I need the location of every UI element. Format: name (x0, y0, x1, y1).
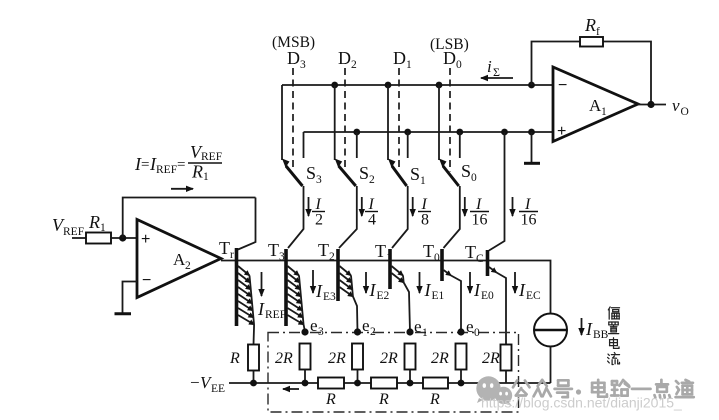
node e2 (354, 316, 376, 338)
node: 2R(e2) on rail (354, 380, 361, 387)
switch S3 arm (282, 159, 303, 187)
svg-text:2R: 2R (482, 350, 500, 367)
wire: ground stub at A1 noninverting input (531, 132, 533, 162)
node: ground stub on ground bus (528, 129, 535, 136)
transistor T2 (4 emitters) (338, 249, 353, 301)
svg-text:E1: E1 (432, 290, 445, 302)
svg-text:I: I (421, 196, 428, 213)
svg-text:2: 2 (185, 260, 191, 272)
svg-text:1: 1 (406, 59, 412, 71)
wire: S2 contact stub from ground bus (356, 132, 358, 158)
svg-text:2R: 2R (380, 350, 398, 367)
svg-text:4: 4 (368, 212, 376, 229)
current arrow I/16 (TC) (512, 197, 514, 216)
svg-text:I: I (315, 196, 322, 213)
label S1 (410, 164, 426, 187)
svg-text:16: 16 (472, 212, 488, 229)
svg-text:2: 2 (315, 212, 323, 229)
svg-text:1: 1 (420, 175, 426, 187)
wire: feedback from Tr collector to A2 input (123, 198, 256, 239)
svg-text:D: D (338, 48, 351, 68)
transistor Tr (multi-emitter) (237, 248, 255, 326)
node: feedback junction at A2 input (119, 234, 126, 241)
svg-text:R: R (191, 162, 203, 182)
svg-text:0: 0 (456, 59, 462, 71)
svg-text:−: − (190, 373, 200, 392)
node: output (647, 101, 654, 108)
label vo (672, 96, 689, 118)
wire: S3 contact from summing bus (281, 85, 283, 160)
current arrow i-sigma (481, 77, 513, 79)
svg-text:=: = (141, 157, 149, 173)
svg-text:I: I (585, 319, 593, 339)
svg-text:16: 16 (521, 212, 537, 229)
wire: R to -VEE rail (253, 371, 255, 384)
resistor Rf (580, 37, 603, 47)
wire: R1 to A2 noninverting input (111, 237, 137, 239)
svg-text:EC: EC (526, 290, 541, 302)
node: 2R(e3) on rail (302, 380, 309, 387)
label I/8 (418, 196, 431, 229)
svg-text:I: I (369, 280, 377, 300)
svg-text:R: R (378, 391, 389, 408)
label IE3 (315, 281, 336, 303)
wire: D1 control line (dashed) (398, 68, 400, 168)
svg-text:3: 3 (279, 251, 285, 263)
network boundary (dash-dot) (268, 333, 519, 413)
svg-text:I: I (524, 196, 531, 213)
svg-text:3: 3 (316, 174, 322, 186)
node: S1 contact on summing bus (385, 82, 392, 89)
current arrow IBB (581, 318, 583, 335)
svg-text:2: 2 (369, 174, 375, 186)
svg-text:8: 8 (421, 212, 429, 229)
wire: S0 pole to T0 collector (444, 186, 460, 248)
resistor 2R termination (482, 345, 512, 371)
svg-text:v: v (672, 96, 680, 115)
wire: D2 control line (dashed) (344, 68, 346, 168)
resistor 2R at e3 (275, 344, 311, 370)
label D2 (338, 48, 357, 71)
svg-text:D: D (443, 48, 456, 68)
label IEC (518, 280, 541, 302)
label S2 (359, 163, 375, 186)
svg-text:REF: REF (201, 151, 222, 163)
svg-text:S: S (359, 163, 369, 183)
resistor R1 (86, 233, 111, 244)
resistor 2R at e2 (328, 344, 363, 370)
wire: S0 contact from summing bus (438, 85, 440, 160)
svg-text:=: = (177, 157, 185, 173)
svg-text:T: T (375, 241, 386, 261)
svg-text:e: e (414, 317, 422, 336)
svg-text:I: I (475, 196, 482, 213)
ground at A2 inverting input (115, 312, 132, 315)
svg-text:e: e (466, 317, 474, 336)
label Rf (584, 15, 600, 38)
transistor T1 (2 emitters) (390, 249, 404, 289)
transistor TC (488, 250, 507, 345)
label T0 (423, 241, 440, 264)
transistor T0 (442, 249, 461, 332)
current arrow I/2 (308, 197, 310, 216)
label 偏置电流 (bias current, vector CJK) (608, 307, 620, 365)
node: S0 contact on summing bus (436, 82, 443, 89)
svg-text:T: T (465, 242, 476, 262)
svg-text:−: − (142, 272, 151, 289)
watermark icon (476, 376, 512, 406)
label I/16 (TC) (519, 196, 538, 229)
node: TC collector on ground bus (501, 129, 508, 136)
svg-text:e: e (310, 316, 318, 335)
current arrow IREF (261, 272, 263, 296)
wire: 2R termination to rail (505, 371, 507, 384)
svg-text:REF: REF (156, 164, 177, 176)
label i-sigma (487, 57, 500, 79)
svg-text:+: + (141, 231, 150, 248)
svg-text:i: i (487, 57, 492, 76)
wire: common base bus from A2 output (221, 261, 551, 314)
svg-text:I: I (315, 281, 323, 301)
label VREF (52, 215, 84, 238)
label R1 (88, 212, 106, 234)
node e0 (457, 317, 480, 339)
svg-text:O: O (681, 106, 689, 118)
label T2 (318, 240, 335, 263)
svg-text:S: S (306, 163, 316, 183)
svg-text:C: C (476, 253, 484, 265)
svg-text:I: I (257, 299, 265, 319)
wire: D3 control line (dashed) (292, 68, 294, 168)
svg-text:I: I (368, 196, 375, 213)
node e3 (301, 316, 324, 338)
label D0 (443, 48, 462, 71)
svg-text:D: D (287, 48, 300, 68)
label IREF (257, 299, 286, 321)
svg-text:R: R (584, 15, 596, 35)
current arrow IE3 (312, 270, 314, 293)
wire: T1 emitter to node e1 (404, 283, 410, 333)
wire: VREF to R1 (72, 237, 86, 239)
svg-text:2: 2 (351, 59, 357, 71)
svg-text:+: + (557, 123, 566, 140)
wire: 2R(e3) to rail (304, 370, 306, 384)
label IE1 (424, 280, 445, 302)
node: S1 contact on ground bus (404, 129, 411, 136)
label T3 (268, 240, 285, 263)
wire: S1 contact from summing bus (387, 85, 389, 160)
wire: 2R(e1) to rail (409, 370, 411, 384)
svg-text:EE: EE (211, 383, 225, 395)
resistor 2R at e1 (380, 344, 416, 370)
wire: Tr collector to feedback loop (238, 198, 256, 250)
wire: S2 contact from summing bus (334, 85, 336, 160)
svg-text:T: T (423, 241, 434, 261)
watermark (476, 376, 693, 410)
wire: ground bus to A1 noninverting input (304, 131, 554, 133)
svg-text:e: e (362, 316, 370, 335)
label I/2 (312, 196, 325, 229)
wire: S1 contact stub from ground bus (407, 132, 409, 158)
resistor 2R at e0 (431, 344, 467, 370)
current arrow I/4 (361, 197, 363, 216)
label I/4 (365, 196, 378, 229)
svg-text:0: 0 (471, 172, 477, 184)
label IBB (585, 319, 609, 341)
current arrow IE1 (419, 272, 421, 293)
formula I = IREF = VREF / R1 (134, 142, 222, 183)
svg-text:S: S (461, 161, 471, 181)
svg-text:E3: E3 (323, 291, 336, 303)
wire: 2R(e2) to rail (357, 370, 359, 384)
switch S1 arm (388, 159, 407, 187)
wire: S1 pole to T1 collector (392, 186, 408, 248)
svg-text:R: R (88, 212, 100, 232)
resistor R (Tr emitter) (229, 345, 259, 371)
wire: Tr emitter to resistor R (253, 325, 256, 345)
svg-text:E2: E2 (377, 290, 390, 302)
transistor T3 (8 emitters) (286, 249, 304, 326)
svg-text:1: 1 (203, 171, 209, 183)
svg-text:REF: REF (265, 309, 286, 321)
node: 2R(e1) on rail (407, 380, 414, 387)
svg-text:R: R (429, 391, 440, 408)
current direction arrow (I) above feedback wire (171, 188, 193, 190)
svg-text:2R: 2R (431, 350, 449, 367)
svg-text:R: R (325, 391, 336, 408)
svg-text:1: 1 (422, 327, 428, 339)
watermark text 公众号 · 电路一点通 (513, 380, 694, 398)
node: Rf feedback on summing bus (528, 82, 535, 89)
wire: S2 pole to T2 collector (339, 186, 357, 248)
wire: feedback through Rf (532, 42, 652, 106)
node: R on rail (250, 380, 257, 387)
switch S2 arm (335, 159, 356, 187)
svg-text:3: 3 (300, 59, 306, 71)
svg-text:D: D (393, 48, 406, 68)
svg-text:2: 2 (329, 251, 335, 263)
svg-text:REF: REF (63, 226, 84, 238)
svg-text:I: I (518, 280, 526, 300)
node: S0 contact on ground bus (456, 129, 463, 136)
label IE2 (369, 280, 390, 302)
svg-text:BB: BB (593, 329, 609, 341)
svg-text:2: 2 (370, 326, 376, 338)
svg-text:3: 3 (318, 326, 324, 338)
svg-text:1: 1 (100, 222, 106, 234)
current arrow IEC (514, 272, 516, 293)
svg-text:R: R (229, 350, 240, 367)
resistor R (rail e2-e1) (371, 378, 397, 409)
current source IBB (534, 314, 567, 384)
label IE0 (473, 280, 494, 302)
current arrow on rail (toward R) (283, 388, 299, 390)
svg-text:1: 1 (601, 106, 607, 118)
svg-text:−: − (558, 77, 567, 94)
node: S2 contact on ground bus (353, 129, 360, 136)
resistor R (rail e3-e2) (318, 378, 344, 409)
switch S0 arm (439, 159, 459, 187)
svg-text:https://blog.csdn.net/dianji20: https://blog.csdn.net/dianji2015_ (481, 395, 682, 411)
label D1 (393, 48, 412, 71)
label TC (465, 242, 484, 265)
wire: 2R(e0) to rail (460, 370, 462, 384)
wire: D0 control line (dashed) (449, 68, 451, 172)
svg-text:S: S (410, 164, 420, 184)
label -VEE (190, 373, 225, 395)
op-amp A2 (137, 220, 221, 298)
svg-text:r: r (230, 249, 234, 261)
label T1 (375, 241, 392, 264)
svg-text:T: T (318, 240, 329, 260)
label Tr (219, 238, 234, 261)
wire: A1 output (638, 104, 666, 106)
op-amp A1 (553, 67, 638, 142)
svg-text:T: T (268, 240, 279, 260)
wire: summing bus to A1 inverting input (282, 84, 553, 86)
svg-text:0: 0 (434, 252, 440, 264)
current arrow IE0 (469, 272, 471, 293)
current arrow IE2 (365, 272, 367, 293)
current arrow I/16 (464, 197, 466, 216)
node: S2 contact on summing bus (331, 82, 338, 89)
node e1 (406, 317, 428, 339)
wire: TC collector to ground bus (489, 132, 505, 251)
label S3 (306, 163, 322, 186)
svg-text:2R: 2R (328, 350, 346, 367)
svg-text:I: I (424, 280, 432, 300)
svg-text:E0: E0 (481, 290, 494, 302)
svg-text:I: I (473, 280, 481, 300)
wire: S0 contact stub from ground bus (459, 132, 461, 158)
svg-text:Σ: Σ (493, 65, 500, 79)
resistor R (rail e1-e0) (423, 378, 448, 409)
svg-text:0: 0 (474, 327, 480, 339)
svg-text:2R: 2R (275, 350, 293, 367)
svg-text:T: T (219, 238, 230, 258)
wire: T3 emitter to node e3 (304, 325, 305, 333)
ground at A1 noninverting input (524, 162, 540, 165)
label S0 (461, 161, 477, 184)
label D3 (287, 48, 306, 71)
label I/16 (470, 196, 489, 229)
node: 2R(e0) on rail (458, 380, 465, 387)
wire: A2 inverting input to ground (123, 282, 138, 313)
wire: T2 emitter to node e2 (353, 297, 358, 333)
wire: -VEE rail (229, 382, 551, 384)
wire: S3 contact stub from ground bus (303, 132, 305, 158)
current arrow I/8 (412, 197, 414, 216)
wire: S3 pole to T3 collector (288, 186, 304, 248)
